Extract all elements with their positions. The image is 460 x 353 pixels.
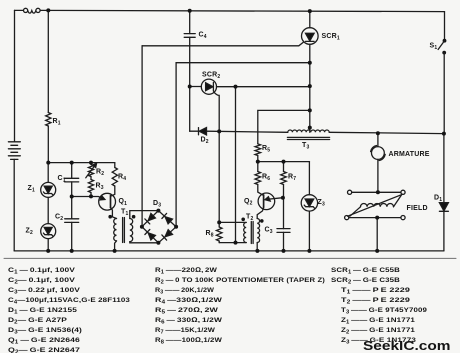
battery B1 bbox=[8, 142, 20, 160]
capacitor C2 bbox=[65, 219, 79, 223]
svg-text:SCR1: SCR1 bbox=[322, 33, 340, 42]
resistor R7 bbox=[281, 172, 287, 185]
wire R7 bottom to emitter node bbox=[283, 185, 285, 198]
wire bridge right vertex up bbox=[175, 63, 177, 227]
wire SCR2 cathode row bbox=[217, 86, 310, 88]
wire left battery column top bbox=[14, 10, 16, 141]
svg-text:C1: C1 bbox=[58, 175, 66, 184]
zener Z3 bbox=[301, 195, 317, 211]
wire bridge left vertex up to SCR1 gate line bbox=[141, 46, 143, 227]
svg-text:C3: C3 bbox=[265, 227, 273, 236]
separator line bbox=[4, 257, 456, 259]
svg-text:R7: R7 bbox=[288, 174, 296, 183]
svg-text:R5 — 270Ω, 2W: R5 — 270Ω, 2W bbox=[155, 307, 219, 316]
svg-text:C3— 0.22 μf, 100V: C3— 0.22 μf, 100V bbox=[8, 287, 80, 296]
wire SCR2 anode column down to D2 bbox=[189, 87, 191, 132]
wire R3 bottom bbox=[90, 193, 92, 197]
svg-text:T3: T3 bbox=[302, 142, 309, 151]
wire T1 secondary top to bridge bbox=[130, 211, 159, 219]
wire C2 bottom lead bbox=[71, 222, 73, 251]
wire node to C2 bbox=[71, 197, 73, 219]
wire C1 top lead bbox=[71, 163, 73, 179]
wire R4 top corner bbox=[114, 163, 116, 168]
svg-text:R1: R1 bbox=[53, 118, 61, 127]
wire rail y161 bbox=[258, 161, 310, 163]
svg-text:D1: D1 bbox=[434, 194, 442, 203]
wire R6 to Q2 base2 bbox=[258, 185, 264, 196]
svg-text:T2 —— P E 2229: T2 —— P E 2229 bbox=[341, 297, 410, 306]
svg-text:D1 — G-E 1N2155: D1 — G-E 1N2155 bbox=[8, 307, 77, 316]
svg-text:D3: D3 bbox=[153, 200, 161, 209]
transformer T3 bbox=[287, 130, 329, 140]
svg-text:SCR2 — G-E C35B: SCR2 — G-E C35B bbox=[331, 277, 400, 286]
wire T2 secondary bottom lead bbox=[256, 243, 258, 251]
wire Z2 bottom lead bbox=[47, 239, 49, 251]
svg-text:C2— 0.1μf, 100V: C2— 0.1μf, 100V bbox=[8, 277, 75, 286]
svg-text:T3 —— G-E 9T45Y7009: T3 —— G-E 9T45Y7009 bbox=[341, 307, 427, 316]
transformer T2 bbox=[241, 218, 263, 244]
svg-text:Q2— G-E 2N2647: Q2— G-E 2N2647 bbox=[8, 347, 80, 353]
wire top rail bbox=[40, 10, 444, 11]
capacitor C4 bbox=[184, 34, 195, 38]
wire bottom rail bbox=[14, 250, 444, 252]
field reversing switch top row bbox=[348, 190, 406, 194]
wire Z1 top lead bbox=[47, 163, 49, 183]
svg-text:Z2: Z2 bbox=[26, 228, 33, 237]
wire C4 top lead bbox=[189, 11, 191, 34]
wire R5 feed row bbox=[258, 110, 310, 143]
wire Z3 top lead bbox=[308, 162, 310, 195]
svg-text:R3 —— 20K,1/2W: R3 —— 20K,1/2W bbox=[155, 287, 214, 296]
svg-text:Z3: Z3 bbox=[318, 199, 325, 208]
zener Z1 bbox=[41, 182, 56, 197]
wire R7 top lead bbox=[283, 162, 285, 172]
wire R1 column from top rail bbox=[47, 10, 49, 112]
wire Z1 to Z2 bbox=[47, 197, 49, 223]
resistor R1 bbox=[46, 113, 51, 127]
resistor R8 bbox=[216, 222, 222, 242]
transistor Q1 bbox=[99, 193, 116, 210]
wire left battery column bottom bbox=[13, 159, 15, 251]
wire T1 primary bottom lead bbox=[115, 241, 117, 251]
svg-text:T1 —— P E 2229: T1 —— P E 2229 bbox=[341, 287, 410, 296]
svg-text:ARMATURE: ARMATURE bbox=[389, 151, 430, 158]
svg-text:Q1: Q1 bbox=[119, 198, 128, 207]
svg-text:R8 ——100Ω,1/2W: R8 ——100Ω,1/2W bbox=[155, 337, 223, 346]
svg-text:Q1 — G-E 2N2646: Q1 — G-E 2N2646 bbox=[8, 337, 80, 346]
motor armature bbox=[371, 146, 386, 161]
wire SCR2 cathode column down bbox=[235, 87, 237, 243]
wire D2 row left bbox=[190, 130, 199, 132]
wire D2 row to T3 bbox=[207, 131, 288, 132]
wire D1 bottom lead bbox=[443, 211, 445, 251]
svg-text:C4—100μf,115VAC,G-E 28F1103: C4—100μf,115VAC,G-E 28F1103 bbox=[8, 297, 130, 306]
wire right column S1 to armature rail bbox=[443, 53, 445, 134]
field winding bbox=[350, 195, 402, 216]
transformer T1 bbox=[108, 215, 135, 243]
field reversing switch bottom row bbox=[345, 216, 406, 220]
transistor Q2 bbox=[258, 193, 275, 210]
svg-text:R4: R4 bbox=[118, 174, 126, 183]
wire C3 bottom lead bbox=[283, 232, 285, 251]
wire reversing diagonal bbox=[348, 194, 403, 216]
wire D1 top lead bbox=[443, 134, 445, 203]
potentiometer R2 bbox=[86, 163, 97, 178]
svg-text:T2: T2 bbox=[246, 214, 253, 223]
wire SCR1 column top bbox=[309, 11, 311, 28]
wire armature rail bbox=[329, 132, 444, 133]
wire T1 secondary bottom to bridge bbox=[130, 242, 159, 243]
wire R8 bottom row bbox=[219, 242, 246, 244]
wire armature bottom lead bbox=[377, 159, 379, 192]
wire Q2 base1 to T2 bbox=[257, 207, 263, 218]
SCR SCR1 bbox=[302, 28, 319, 45]
svg-text:Z1 —— G-E 1N1771: Z1 —— G-E 1N1771 bbox=[341, 317, 415, 326]
wire SCR1 cathode column bbox=[309, 44, 311, 132]
resistor R4 bbox=[112, 168, 117, 187]
zener Z2 bbox=[41, 224, 56, 239]
svg-text:D2— G-E A27P: D2— G-E A27P bbox=[8, 317, 67, 326]
wire SCR1 gate line bbox=[142, 42, 304, 46]
wire SCR2 gate down bbox=[214, 92, 219, 223]
wire R5 bottom to rail bbox=[257, 156, 259, 162]
capacitor C3 bbox=[277, 229, 290, 233]
wire top rail left of fuse bbox=[15, 9, 24, 11]
wire field to bottom rail bbox=[376, 218, 378, 251]
svg-text:Z1: Z1 bbox=[28, 185, 35, 194]
wire armature top lead bbox=[377, 133, 379, 146]
svg-text:R5: R5 bbox=[262, 145, 270, 154]
svg-text:Q2: Q2 bbox=[244, 198, 253, 207]
svg-text:R4 —330Ω,1/2W: R4 —330Ω,1/2W bbox=[155, 297, 223, 306]
wire R1 bottom to zener rail bbox=[47, 126, 49, 163]
bridge rectifier D3 bbox=[142, 211, 176, 243]
wire Q1 emitter row bbox=[72, 197, 104, 200]
wire Q2 emitter row bbox=[269, 198, 283, 199]
wire R8 top row bbox=[219, 221, 246, 223]
svg-text:D2: D2 bbox=[201, 137, 209, 146]
resistor R6 bbox=[255, 172, 261, 185]
wire C1 to node bbox=[71, 182, 73, 197]
wire Q1 base1 to T1 bbox=[111, 207, 117, 218]
svg-text:R7 ——15K,1/2W: R7 ——15K,1/2W bbox=[155, 327, 216, 336]
svg-text:R3: R3 bbox=[96, 183, 104, 192]
svg-text:SCR1 — G-E C55B: SCR1 — G-E C55B bbox=[331, 267, 400, 276]
diode D1 bbox=[439, 203, 448, 212]
wire Z3 bottom lead bbox=[308, 211, 310, 251]
svg-text:S1: S1 bbox=[430, 43, 438, 52]
svg-text:R6 — 330Ω, 1/2W: R6 — 330Ω, 1/2W bbox=[155, 317, 223, 326]
fuse F1 bbox=[24, 8, 41, 13]
svg-text:C4: C4 bbox=[199, 32, 207, 41]
svg-text:C2: C2 bbox=[55, 214, 63, 223]
wire C4 bottom lead to SCR2 anode bbox=[189, 37, 191, 86]
svg-text:D3— G-E 1N536(4): D3— G-E 1N536(4) bbox=[8, 327, 82, 336]
svg-text:C1 — 0.1μf, 100V: C1 — 0.1μf, 100V bbox=[8, 267, 75, 276]
svg-text:R1 ——220Ω, 2W: R1 ——220Ω, 2W bbox=[155, 267, 218, 276]
svg-text:Z2 —— G-E 1N1771: Z2 —— G-E 1N1771 bbox=[341, 327, 415, 336]
svg-text:FIELD: FIELD bbox=[407, 205, 428, 212]
svg-text:R2 — 0 TO 100K POTENTIOMETER (: R2 — 0 TO 100K POTENTIOMETER (TAPER Z) bbox=[155, 277, 325, 286]
resistor R3 bbox=[88, 177, 93, 193]
svg-text:T1: T1 bbox=[121, 209, 128, 218]
wire R6 top lead bbox=[257, 162, 259, 172]
wire rail y162 bbox=[48, 162, 115, 164]
wire R4 to Q1 base2 bbox=[111, 186, 115, 196]
wire right column top (to S1) bbox=[444, 12, 446, 41]
SCR SCR2 bbox=[201, 79, 216, 94]
svg-text:SeekIC.com: SeekIC.com bbox=[363, 339, 451, 353]
capacitor C1 bbox=[65, 178, 79, 182]
switch S1 bbox=[438, 39, 446, 55]
wire SCR2 anode row bbox=[190, 86, 202, 88]
diode D2 bbox=[199, 128, 207, 135]
wire y62 row to SCR1 column bbox=[176, 62, 310, 64]
resistor R5 bbox=[255, 144, 261, 156]
wire node to C3 bbox=[283, 198, 285, 229]
svg-text:R8: R8 bbox=[206, 230, 214, 239]
svg-text:R2: R2 bbox=[96, 169, 104, 178]
svg-text:R6: R6 bbox=[262, 174, 270, 183]
wire R2 top lead bbox=[90, 163, 92, 165]
